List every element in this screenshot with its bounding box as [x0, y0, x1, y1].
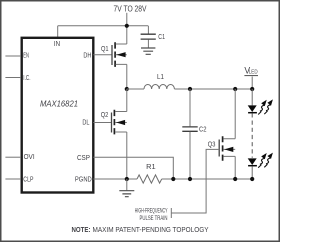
- wire Q1 source to switch node: [126, 64, 128, 89]
- svg-text:PGND: PGND: [75, 176, 92, 183]
- wire IN drop: [57, 26, 59, 39]
- junction C2 bottom: [188, 177, 192, 181]
- wire Q2 source to ground rail: [126, 132, 128, 179]
- svg-text:NOTE:: NOTE:: [72, 227, 91, 234]
- svg-text:EN: EN: [23, 52, 29, 59]
- pin stub I.C.: [5, 77, 21, 79]
- svg-text:CSP: CSP: [77, 155, 90, 162]
- svg-text:CLP: CLP: [23, 176, 33, 183]
- capacitor C2: [182, 89, 197, 179]
- wire output rail VLED: [174, 88, 252, 90]
- D2 light emission arrows: [258, 158, 270, 168]
- wire CSP sense line: [93, 157, 173, 179]
- wire VLED stub: [251, 77, 253, 90]
- svg-text:R1: R1: [146, 164, 156, 171]
- inductor L1: [127, 85, 175, 90]
- svg-text:L1: L1: [157, 74, 164, 81]
- svg-text:C2: C2: [199, 127, 207, 134]
- wire Q3 drain rise: [234, 89, 236, 139]
- wire pulse-train to Q3 gate: [171, 149, 219, 213]
- pin stub EN: [5, 55, 21, 57]
- LED D1: [248, 89, 257, 113]
- junction Q3 drain on rail: [233, 87, 237, 91]
- junction VLED / LED string top: [250, 87, 254, 91]
- junction Q3 source on rail: [233, 177, 237, 181]
- pulse source terminal tick: [170, 208, 172, 218]
- transistor Q3: [219, 136, 235, 161]
- svg-text:Q2: Q2: [101, 112, 109, 119]
- svg-text:7V TO 28V: 7V TO 28V: [114, 5, 147, 14]
- wire DL to Q2 gate: [93, 122, 111, 124]
- svg-text:C1: C1: [158, 34, 165, 41]
- svg-text:MAXIM PATENT-PENDING TOPOLOGY: MAXIM PATENT-PENDING TOPOLOGY: [93, 227, 209, 234]
- wire Q3 source to ground rail: [234, 156, 236, 179]
- wire dashed LED string continuation: [251, 113, 253, 158]
- node VLED label: [244, 65, 258, 75]
- resistor R1: [137, 175, 162, 183]
- junction switch node LX: [125, 87, 129, 91]
- LED D2: [248, 158, 257, 179]
- svg-text:OVI: OVI: [24, 154, 35, 161]
- svg-text:IN: IN: [54, 41, 60, 48]
- svg-text:Q3: Q3: [208, 142, 216, 149]
- svg-text:DH: DH: [83, 52, 91, 59]
- svg-text:PULSE TRAIN: PULSE TRAIN: [140, 215, 168, 222]
- svg-text:LED: LED: [249, 70, 258, 76]
- wire Q2 drain to switch node: [126, 89, 128, 112]
- ground at PGND: [119, 179, 134, 197]
- IC U1 MAX16821 box: [22, 38, 94, 193]
- wire top rail: [58, 25, 149, 27]
- pin stub OVI: [5, 156, 21, 158]
- D1 light emission arrows: [258, 105, 270, 115]
- junction CSP tap: [171, 177, 175, 181]
- svg-text:Q1: Q1: [101, 46, 109, 53]
- wire DH to Q1 gate: [93, 54, 112, 56]
- capacitor C1: [141, 26, 156, 48]
- svg-text:MAX16821: MAX16821: [40, 99, 78, 109]
- transistor Q1: [112, 42, 127, 67]
- svg-text:DL: DL: [82, 120, 89, 127]
- junction on supply rail: [125, 24, 129, 28]
- wire bottom rail PGND segment: [93, 178, 137, 180]
- svg-text:I.C.: I.C.: [23, 75, 30, 82]
- svg-text:HIGH-FREQUENCY: HIGH-FREQUENCY: [135, 207, 168, 214]
- ground at C1: [141, 48, 155, 54]
- junction LED string bottom: [250, 177, 254, 181]
- junction PGND / Q2 source / ground: [125, 177, 129, 181]
- wire supply drop to rail and Q1 drain: [126, 13, 128, 44]
- junction C2 top: [188, 87, 192, 91]
- wire bottom rail right segment: [162, 178, 253, 180]
- pin stub CLP: [5, 178, 21, 180]
- transistor Q2: [112, 110, 127, 135]
